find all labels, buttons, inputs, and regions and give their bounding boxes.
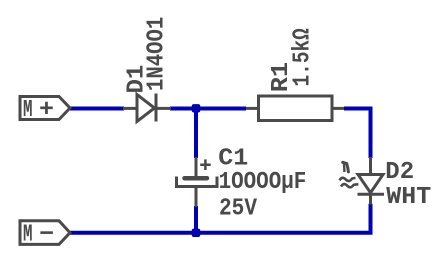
connector M- — [20, 221, 70, 249]
svg-text:−: − — [39, 222, 54, 248]
LED D2 — [340, 157, 385, 205]
svg-text:1N4OO1: 1N4OO1 — [142, 17, 170, 91]
LED light arrow 1 wavy shaft — [340, 178, 356, 181]
connector M+ — [20, 97, 70, 125]
svg-text:D2: D2 — [385, 159, 414, 186]
svg-text:1.5kΩ: 1.5kΩ — [289, 28, 316, 86]
svg-text:M: M — [23, 222, 33, 249]
node junction bottom — [192, 229, 200, 237]
wire R1 to LED top corner — [344, 109, 371, 159]
svg-text:25V: 25V — [219, 194, 257, 222]
svg-text:M: M — [23, 97, 33, 124]
svg-text:+: + — [39, 97, 54, 123]
svg-text:1OOOOµF: 1OOOOµF — [219, 168, 307, 196]
capacitor C1 — [177, 157, 218, 207]
wire junction to C1 top — [194, 107, 198, 159]
diode D1 — [123, 94, 171, 122]
wire M+ to D1 anode — [70, 107, 124, 111]
LED light arrow 1 head — [343, 162, 349, 172]
node junction top — [192, 104, 200, 112]
svg-text:WHT: WHT — [386, 184, 431, 210]
wire C1 bottom to bottom rail — [194, 206, 198, 233]
wire D1 cathode to R1 — [170, 107, 246, 111]
resistor R1 — [246, 96, 344, 121]
LED light arrow 2 wavy shaft — [341, 184, 358, 187]
wire D2 bottom corner to bottom rail — [70, 204, 371, 233]
